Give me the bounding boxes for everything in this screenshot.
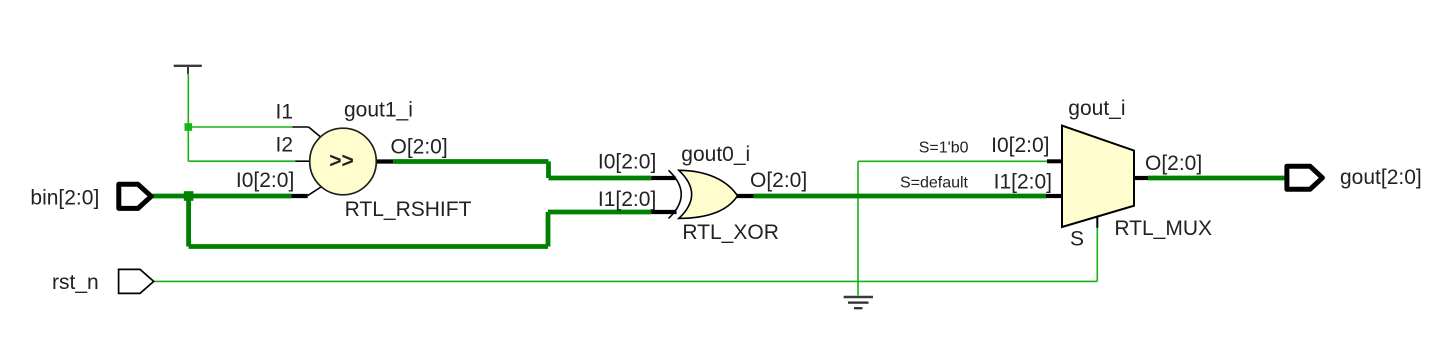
svg-text:I0[2:0]: I0[2:0] xyxy=(598,151,656,174)
svg-text:I0[2:0]: I0[2:0] xyxy=(236,169,294,192)
wire rshift O step down xyxy=(546,162,551,179)
port gout[2:0] xyxy=(1287,166,1323,189)
pin O stub xor xyxy=(737,194,754,198)
svg-text:gout_i: gout_i xyxy=(1068,97,1125,120)
pin I1 leader xyxy=(293,127,321,137)
svg-text:O[2:0]: O[2:0] xyxy=(391,136,448,159)
wire ground net to mux I0 xyxy=(858,160,1047,162)
wire mux O bus to gout port xyxy=(1148,176,1285,181)
pin I1 stub mux xyxy=(1046,194,1062,198)
wire ground net vertical xyxy=(857,161,859,295)
pin I0 stub rshift xyxy=(291,187,321,196)
svg-text:bin[2:0]: bin[2:0] xyxy=(30,186,99,209)
wire rshift O bus xyxy=(393,159,548,164)
svg-text:RTL_MUX: RTL_MUX xyxy=(1114,217,1212,240)
svg-text:I1[2:0]: I1[2:0] xyxy=(598,188,656,211)
pin O stub mux xyxy=(1134,176,1148,180)
wire vertical to I2 xyxy=(187,127,189,161)
wire bin bus vertical up to xor I1 xyxy=(546,212,551,247)
svg-text:S=1'b0: S=1'b0 xyxy=(919,140,969,157)
gate xor gout0_i xyxy=(669,170,738,218)
wire to xor I0 xyxy=(549,176,652,181)
svg-text:gout1_i: gout1_i xyxy=(344,99,413,122)
svg-text:O[2:0]: O[2:0] xyxy=(750,169,807,192)
svg-text:gout0_i: gout0_i xyxy=(681,143,750,166)
svg-text:I1[2:0]: I1[2:0] xyxy=(994,171,1052,194)
node junction const net xyxy=(185,123,193,131)
wire xor O bus to mux I1 xyxy=(754,194,1047,199)
wire rst_n net vertical to S xyxy=(1096,228,1098,282)
svg-text:S=default: S=default xyxy=(900,174,969,191)
pin I1 stub xor xyxy=(651,210,676,214)
wire I2 horizontal xyxy=(188,160,295,162)
wire I1 horizontal xyxy=(188,126,292,128)
svg-text:RTL_XOR: RTL_XOR xyxy=(682,221,778,244)
power symbol (constant) xyxy=(174,66,202,74)
pin S stub mux xyxy=(1096,217,1098,228)
pin I0 stub xor xyxy=(651,176,675,180)
svg-text:gout[2:0]: gout[2:0] xyxy=(1340,166,1422,189)
op rshift U gout1_i circle xyxy=(310,128,377,195)
port rst_n xyxy=(119,269,154,293)
wire bin bus xyxy=(153,194,292,199)
wire bin bus to xor I1 xyxy=(548,210,651,215)
wire bin bus bottom horizontal xyxy=(189,244,548,249)
svg-text:I2: I2 xyxy=(275,134,293,157)
node junction bin bus xyxy=(184,191,194,201)
mux gout_i trapezoid xyxy=(1062,126,1134,227)
ground xyxy=(844,297,873,308)
svg-text:rst_n: rst_n xyxy=(52,271,99,294)
svg-text:O[2:0]: O[2:0] xyxy=(1145,152,1202,175)
svg-text:>>: >> xyxy=(329,150,354,173)
svg-text:S: S xyxy=(1070,228,1084,251)
wire rst_n net xyxy=(155,280,1098,282)
svg-text:I1: I1 xyxy=(275,100,293,123)
svg-text:RTL_RSHIFT: RTL_RSHIFT xyxy=(345,198,472,221)
port bin[2:0] xyxy=(119,184,151,208)
svg-text:I0[2:0]: I0[2:0] xyxy=(991,134,1049,157)
wire const net vertical to junction xyxy=(187,74,189,128)
pin I2 leader xyxy=(296,160,311,162)
wire bin bus vertical down xyxy=(186,196,191,247)
pin O stub rshift xyxy=(377,159,393,163)
pin I0 stub mux xyxy=(1047,159,1062,163)
